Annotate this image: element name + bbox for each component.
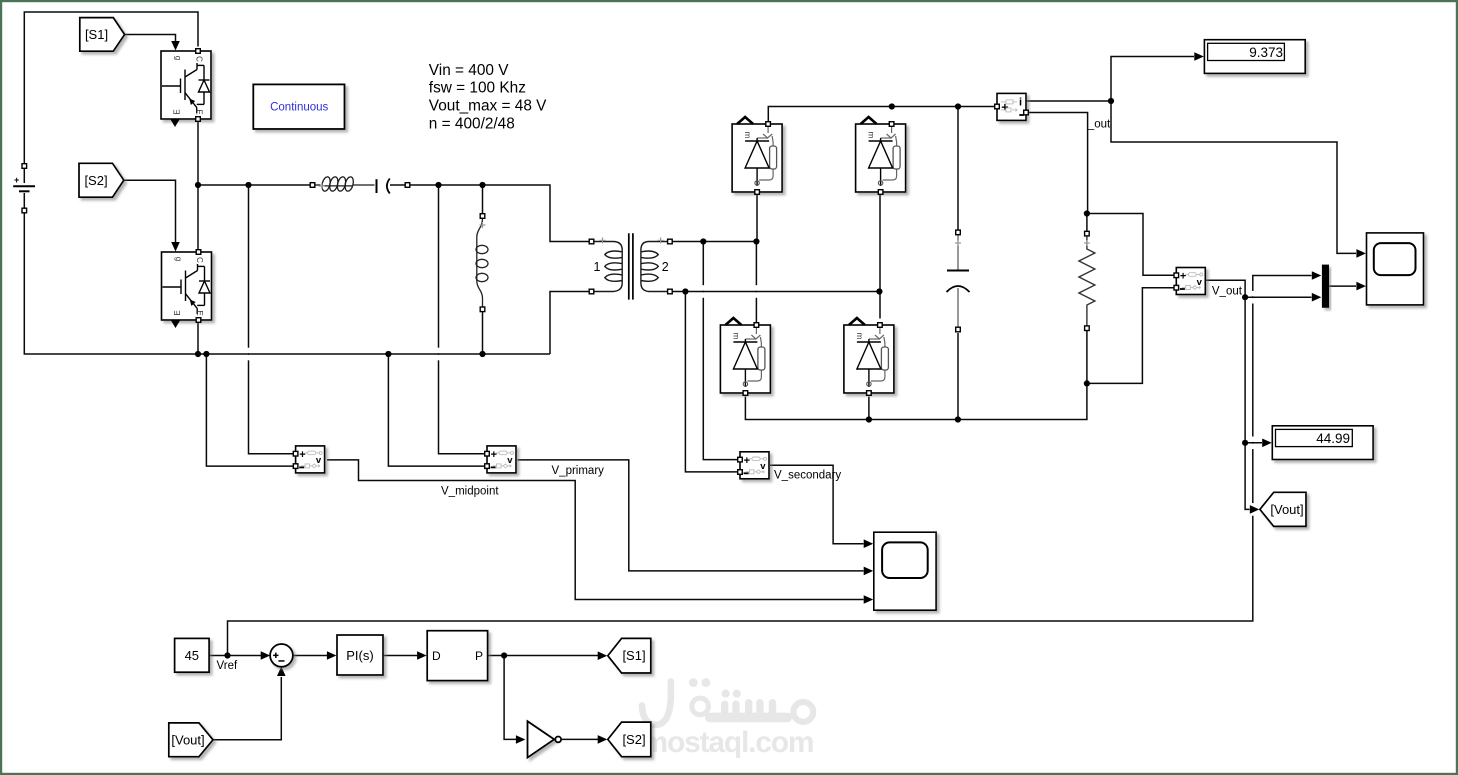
svg-text:_out: _out — [1087, 118, 1111, 130]
svg-text:Vout_max = 48 V: Vout_max = 48 V — [429, 97, 547, 114]
svg-text:V_out: V_out — [1212, 286, 1243, 298]
svg-text:1: 1 — [594, 260, 601, 274]
svg-text:P: P — [475, 649, 483, 663]
svg-text:Continuous: Continuous — [270, 101, 328, 113]
svg-text:[S1]: [S1] — [85, 27, 108, 42]
svg-text:mostaql.com: mostaql.com — [642, 726, 814, 759]
svg-text:[S2]: [S2] — [84, 173, 107, 188]
svg-text:Vin = 400 V: Vin = 400 V — [429, 62, 509, 79]
svg-text:fsw = 100 Khz: fsw = 100 Khz — [429, 80, 526, 97]
svg-text:Vref: Vref — [217, 660, 238, 672]
svg-text:[S2]: [S2] — [622, 732, 645, 747]
svg-text:PI(s): PI(s) — [346, 648, 373, 663]
svg-text:2: 2 — [662, 260, 669, 274]
svg-text:V_primary: V_primary — [552, 465, 605, 477]
svg-text:V_secondary: V_secondary — [774, 470, 841, 482]
svg-text:D: D — [432, 649, 441, 663]
svg-text:V_midpoint: V_midpoint — [441, 486, 499, 498]
svg-text:45: 45 — [185, 648, 199, 663]
svg-text:[Vout]: [Vout] — [171, 732, 204, 747]
svg-text:44.99: 44.99 — [1316, 431, 1350, 446]
svg-text:9.373: 9.373 — [1249, 45, 1283, 60]
svg-text:n = 400/2/48: n = 400/2/48 — [429, 115, 515, 132]
svg-text:[S1]: [S1] — [622, 648, 645, 663]
svg-text:+: + — [14, 175, 19, 185]
svg-text:[Vout]: [Vout] — [1270, 502, 1303, 517]
